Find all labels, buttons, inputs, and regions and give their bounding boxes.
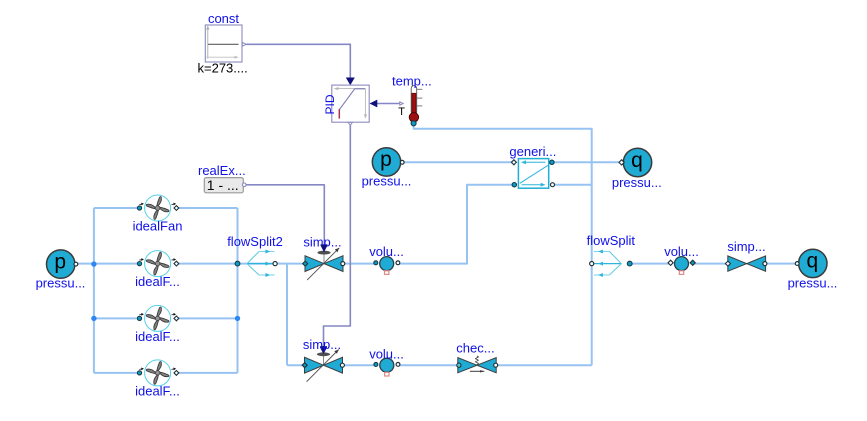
- svg-text:idealF...: idealF...: [135, 384, 180, 399]
- svg-text:pressu...: pressu...: [36, 276, 86, 291]
- svg-text:temp...: temp...: [392, 74, 432, 89]
- svg-text:p: p: [380, 148, 392, 171]
- svg-text:flowSplit2: flowSplit2: [227, 234, 283, 249]
- svg-text:const: const: [208, 11, 239, 26]
- svg-text:p: p: [54, 250, 66, 273]
- svg-text:q: q: [806, 250, 818, 273]
- svg-text:idealF...: idealF...: [135, 274, 180, 289]
- svg-text:idealFan: idealFan: [133, 219, 183, 234]
- svg-text:pressu...: pressu...: [788, 276, 838, 291]
- svg-text:simp...: simp...: [303, 337, 341, 352]
- svg-text:pressu...: pressu...: [612, 175, 662, 190]
- svg-text:k=273....: k=273....: [198, 61, 248, 76]
- svg-text:generi...: generi...: [509, 144, 556, 159]
- svg-text:volu...: volu...: [369, 244, 404, 259]
- svg-text:volu...: volu...: [369, 346, 404, 361]
- svg-text:chec...: chec...: [456, 340, 494, 355]
- svg-text:idealF...: idealF...: [135, 329, 180, 344]
- svg-text:volu...: volu...: [664, 244, 699, 259]
- svg-text:1 - ...: 1 - ...: [207, 177, 239, 193]
- svg-text:q: q: [631, 149, 643, 172]
- svg-text:PID: PID: [323, 94, 337, 114]
- svg-text:simp...: simp...: [727, 239, 765, 254]
- svg-text:pressu...: pressu...: [362, 173, 412, 188]
- svg-text:T: T: [398, 106, 405, 118]
- svg-text:flowSplit: flowSplit: [587, 233, 636, 248]
